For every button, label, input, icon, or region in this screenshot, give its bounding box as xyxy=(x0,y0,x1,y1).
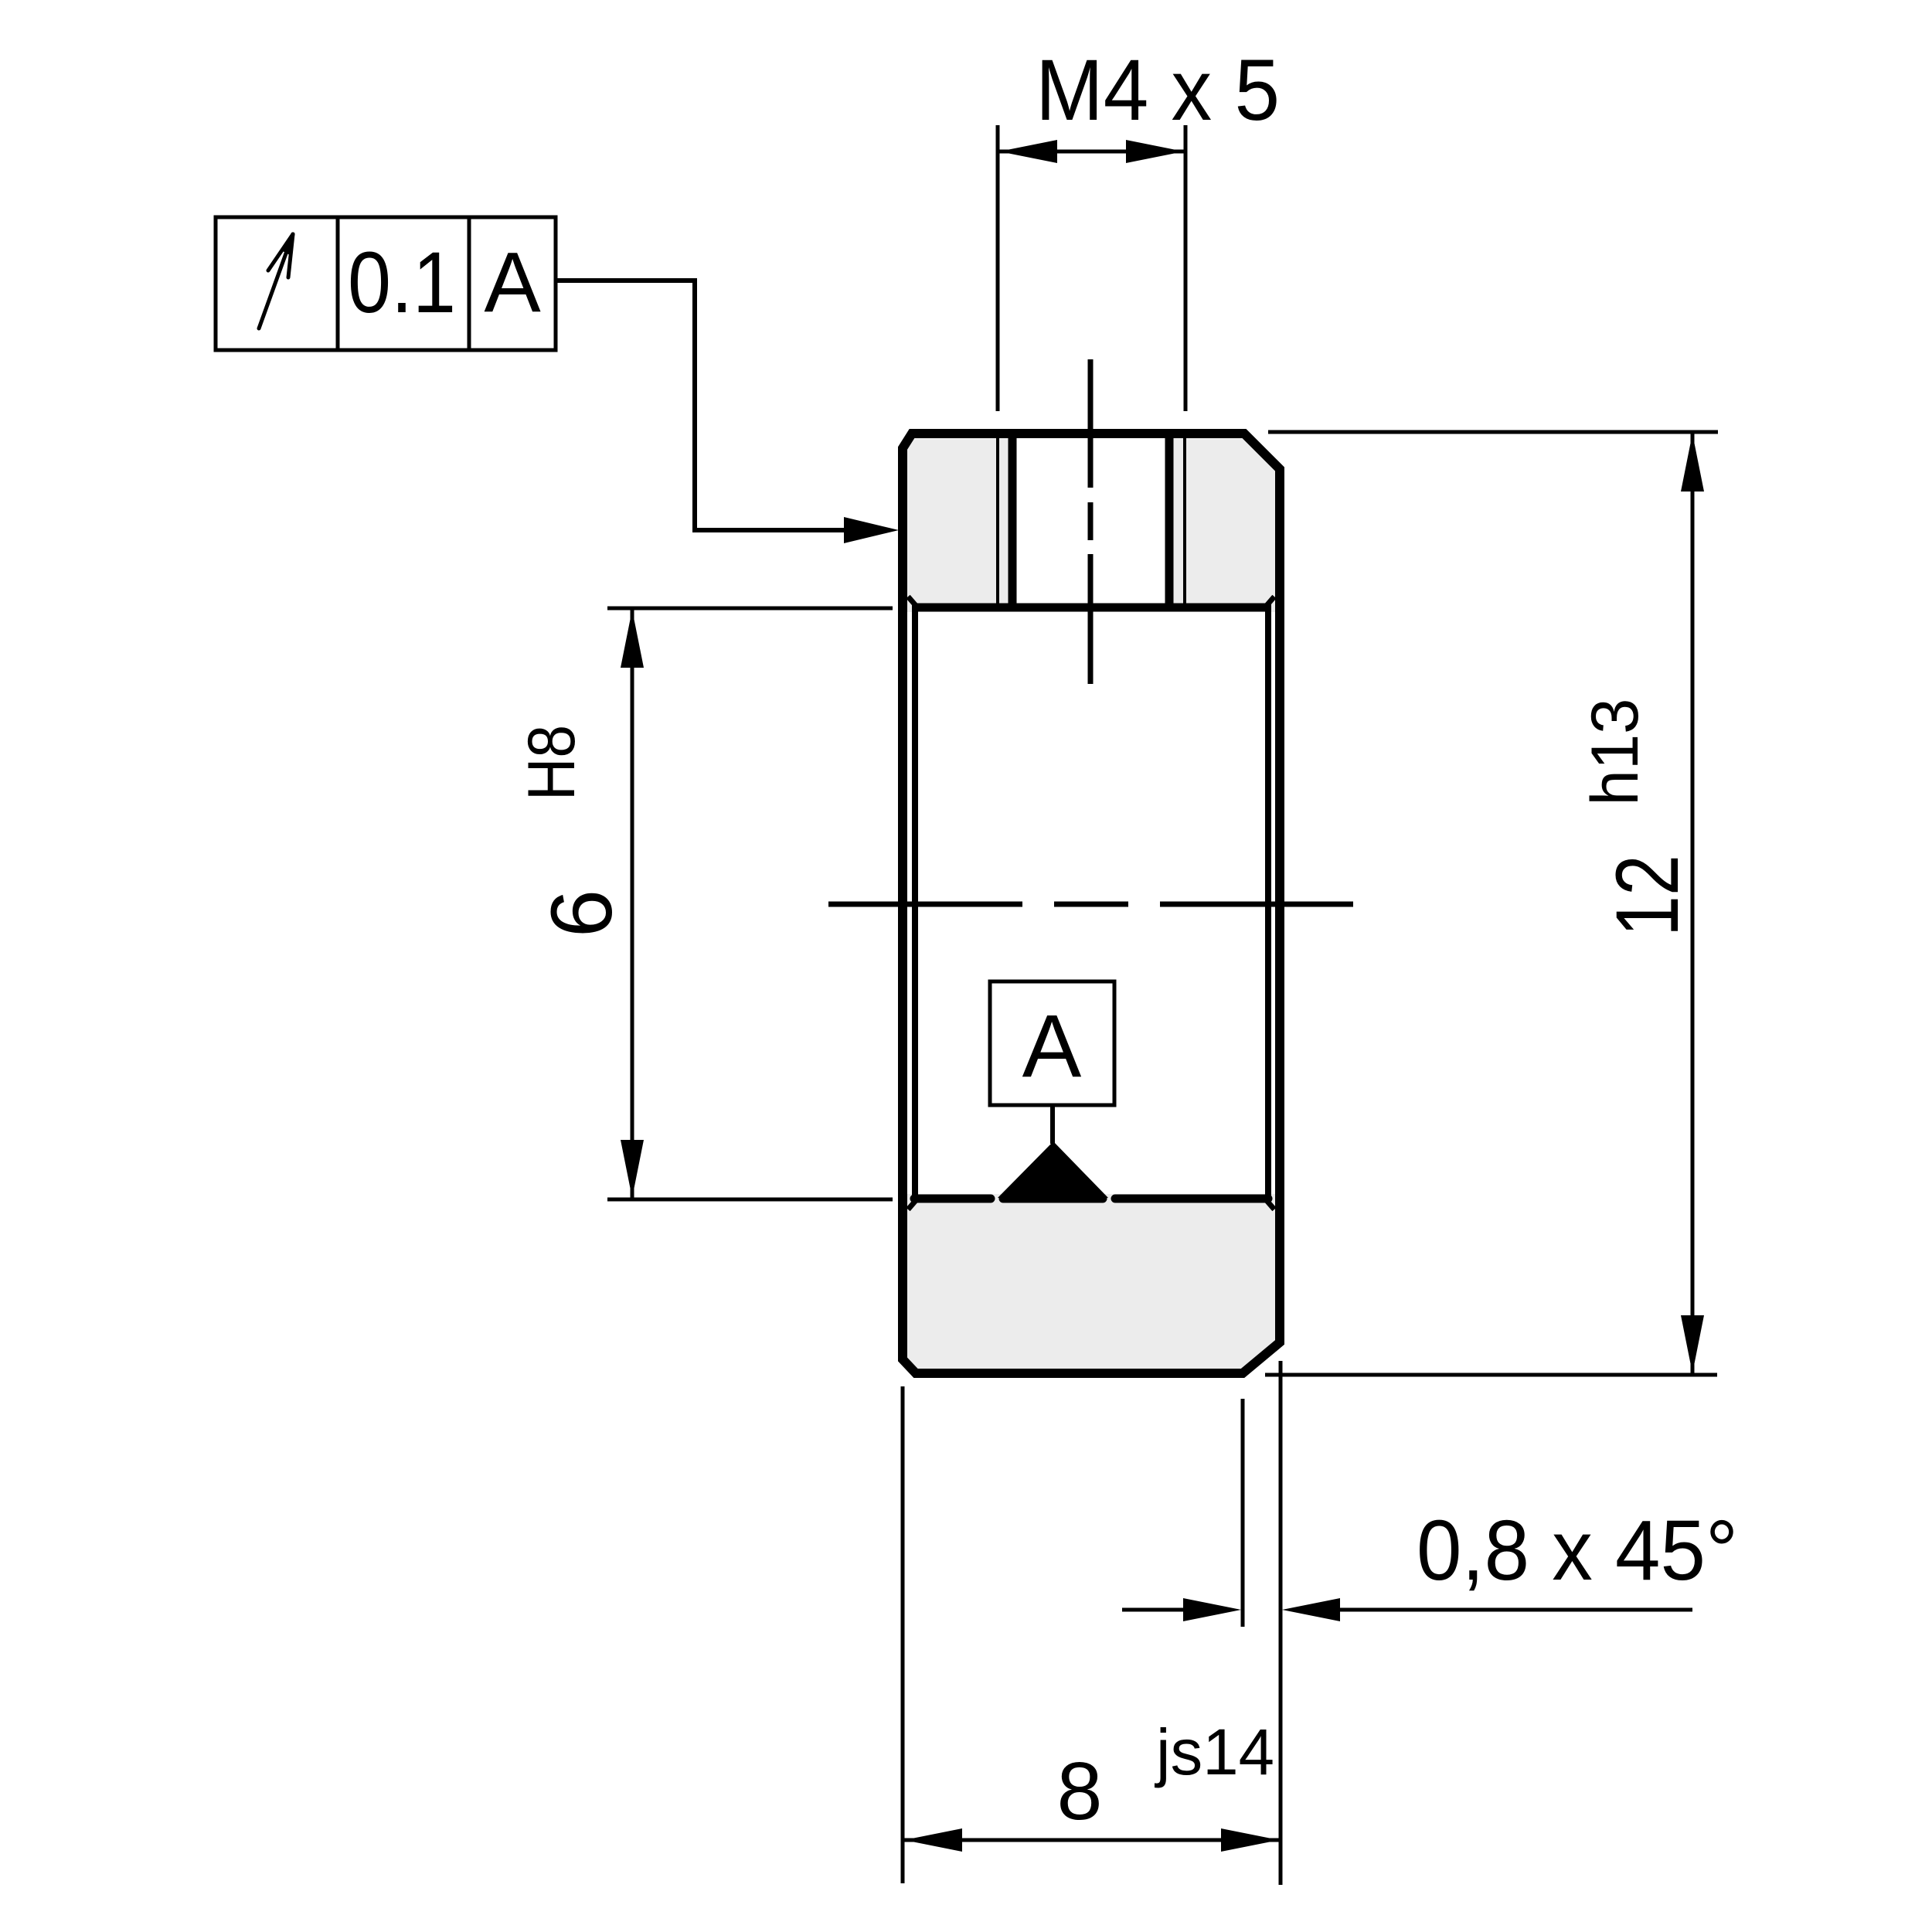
wire: thread tap bore left xyxy=(1009,431,1017,607)
svg-text:0,8 x 45°: 0,8 x 45° xyxy=(1417,1503,1738,1598)
wire: leader from tolerance frame to part xyxy=(556,281,899,543)
node: M4x5 thread dimension xyxy=(998,42,1280,411)
svg-text:A: A xyxy=(1022,997,1082,1096)
svg-text:6: 6 xyxy=(533,889,630,937)
wire: bore bottom edge left segment xyxy=(914,1195,991,1203)
node: runout tolerance frame 0.1 A xyxy=(216,217,556,350)
svg-text:0.1: 0.1 xyxy=(348,234,456,331)
wire: bore left inner wall xyxy=(912,604,918,1202)
svg-text:12: 12 xyxy=(1598,855,1697,937)
node: bore depth dimension 6 H8 xyxy=(515,608,893,1199)
svg-text:8: 8 xyxy=(1057,1746,1103,1837)
node: bore entry chamfer top-right xyxy=(1264,597,1274,608)
svg-text:M4 x 5: M4 x 5 xyxy=(1036,42,1280,138)
node: vertical centerline xyxy=(1088,359,1094,684)
wire: bore bottom edge middle segment under datum triangle xyxy=(1003,1195,1103,1203)
part outline xyxy=(903,434,1280,1373)
wire: thread crest line right xyxy=(1183,438,1186,604)
node: outer diameter dimension 8 js14 xyxy=(903,1361,1281,1885)
svg-text:js14: js14 xyxy=(1154,1716,1274,1788)
wire: thread crest line left xyxy=(996,438,999,604)
node: bore entry chamfer top-left xyxy=(908,597,918,608)
part body fill (sectioned round nut) xyxy=(866,434,1314,1373)
svg-text:h13: h13 xyxy=(1578,699,1652,806)
wire: bore right inner wall xyxy=(1265,604,1271,1202)
node: chamfer dimension 0,8 x 45deg xyxy=(1122,1399,1738,1627)
node: datum feature A xyxy=(990,981,1114,1198)
wire: top wall bottom edge xyxy=(914,604,1268,612)
svg-text:H8: H8 xyxy=(515,725,589,801)
node: bore bottom chamfer right xyxy=(1264,1198,1274,1209)
wire: bore bottom edge right segment xyxy=(1115,1195,1268,1203)
svg-text:A: A xyxy=(484,235,541,330)
wire: thread tap bore right xyxy=(1165,431,1174,607)
node: horizontal centerline xyxy=(828,902,1353,907)
node: overall height dimension 12 h13 xyxy=(1265,432,1718,1375)
node: bore bottom chamfer left xyxy=(908,1198,918,1209)
